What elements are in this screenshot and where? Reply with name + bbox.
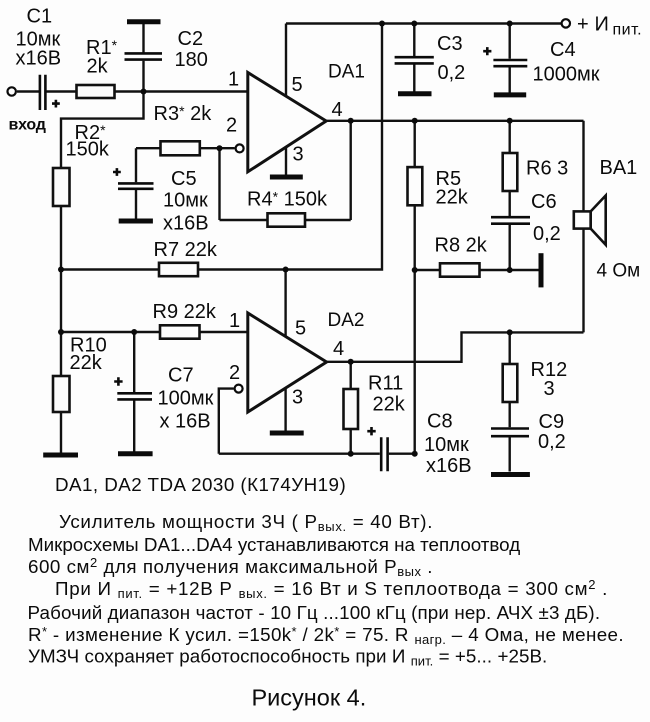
- svg-text:C4: C4: [550, 39, 576, 61]
- svg-text:R* - изменение К усил. =150k*: R* - изменение К усил. =150k* / 2k* = 75…: [28, 624, 624, 647]
- svg-text:R8 2k: R8 2k: [435, 235, 488, 257]
- svg-text:DA2: DA2: [328, 310, 365, 331]
- svg-text:R9 22k: R9 22k: [153, 301, 217, 323]
- svg-text:Рабочий диапазон частот - 10 Г: Рабочий диапазон частот - 10 Гц ...100 к…: [28, 602, 601, 623]
- svg-text:х 16В: х 16В: [160, 411, 211, 433]
- svg-text:Рисунок 4.: Рисунок 4.: [252, 685, 367, 711]
- svg-text:150k: 150k: [66, 139, 110, 161]
- svg-text:C5: C5: [171, 168, 197, 190]
- svg-text:5: 5: [292, 74, 303, 96]
- svg-text:R7 22k: R7 22k: [154, 239, 218, 261]
- svg-text:C8: C8: [427, 411, 453, 433]
- svg-text:х16В: х16В: [426, 455, 472, 477]
- svg-text:C6: C6: [531, 191, 557, 213]
- svg-text:600 см2 для получения максима: 600 см2 для получения максимальной Рвых …: [28, 555, 433, 579]
- svg-text:C2: C2: [178, 28, 204, 50]
- svg-text:C1: C1: [27, 6, 53, 28]
- svg-text:2: 2: [226, 115, 237, 137]
- svg-text:C3: C3: [437, 33, 463, 55]
- svg-text:вход: вход: [9, 117, 46, 134]
- svg-text:х16В: х16В: [163, 213, 209, 235]
- svg-text:C9: C9: [539, 411, 565, 433]
- svg-text:И: И: [595, 14, 609, 36]
- svg-text:+: +: [577, 14, 589, 36]
- svg-text:DA1, DA2 TDA 2030 (К174УН19): DA1, DA2 TDA 2030 (К174УН19): [55, 474, 346, 495]
- svg-text:3: 3: [544, 378, 555, 400]
- svg-text:0,2: 0,2: [438, 62, 466, 84]
- svg-text:R4* 150k: R4* 150k: [247, 189, 328, 211]
- svg-text:22k: 22k: [436, 187, 469, 209]
- svg-text:4: 4: [332, 99, 343, 121]
- svg-text:22k: 22k: [373, 394, 406, 416]
- svg-text:2: 2: [229, 362, 240, 384]
- svg-text:4: 4: [333, 338, 344, 360]
- svg-text:3: 3: [292, 387, 303, 409]
- svg-text:2k: 2k: [87, 56, 109, 78]
- svg-text:х16В: х16В: [16, 48, 62, 70]
- svg-text:1000мк: 1000мк: [533, 64, 600, 86]
- svg-text:DA1: DA1: [328, 62, 365, 83]
- svg-text:180: 180: [175, 49, 208, 71]
- svg-text:C7: C7: [168, 365, 194, 387]
- svg-text:22k: 22k: [70, 352, 103, 374]
- svg-text:УМЗЧ сохраняет работоспособнос: УМЗЧ сохраняет работоспособность при И п…: [28, 646, 547, 669]
- svg-text:10мк: 10мк: [163, 190, 208, 212]
- svg-text:4 Ом: 4 Ом: [597, 261, 641, 282]
- svg-text:Усилитель мощности 3Ч ( Рвых.: Усилитель мощности 3Ч ( Рвых. = 40 Вт).: [59, 511, 433, 534]
- svg-text:1: 1: [228, 69, 239, 91]
- svg-text:BA1: BA1: [600, 157, 638, 179]
- svg-text:R11: R11: [368, 373, 403, 395]
- svg-text:0,2: 0,2: [538, 431, 566, 453]
- svg-text:10мк: 10мк: [424, 434, 469, 456]
- svg-text:0,2: 0,2: [533, 223, 561, 245]
- svg-text:Микросхемы DA1...DA4 устанавли: Микросхемы DA1...DA4 устанавливаются на …: [28, 534, 520, 555]
- svg-text:1: 1: [229, 310, 240, 332]
- svg-text:3: 3: [293, 144, 304, 166]
- svg-text:100мк: 100мк: [158, 388, 214, 410]
- svg-text:пит.: пит.: [613, 22, 643, 39]
- svg-text:R6 3: R6 3: [526, 158, 568, 180]
- svg-text:5: 5: [295, 318, 306, 340]
